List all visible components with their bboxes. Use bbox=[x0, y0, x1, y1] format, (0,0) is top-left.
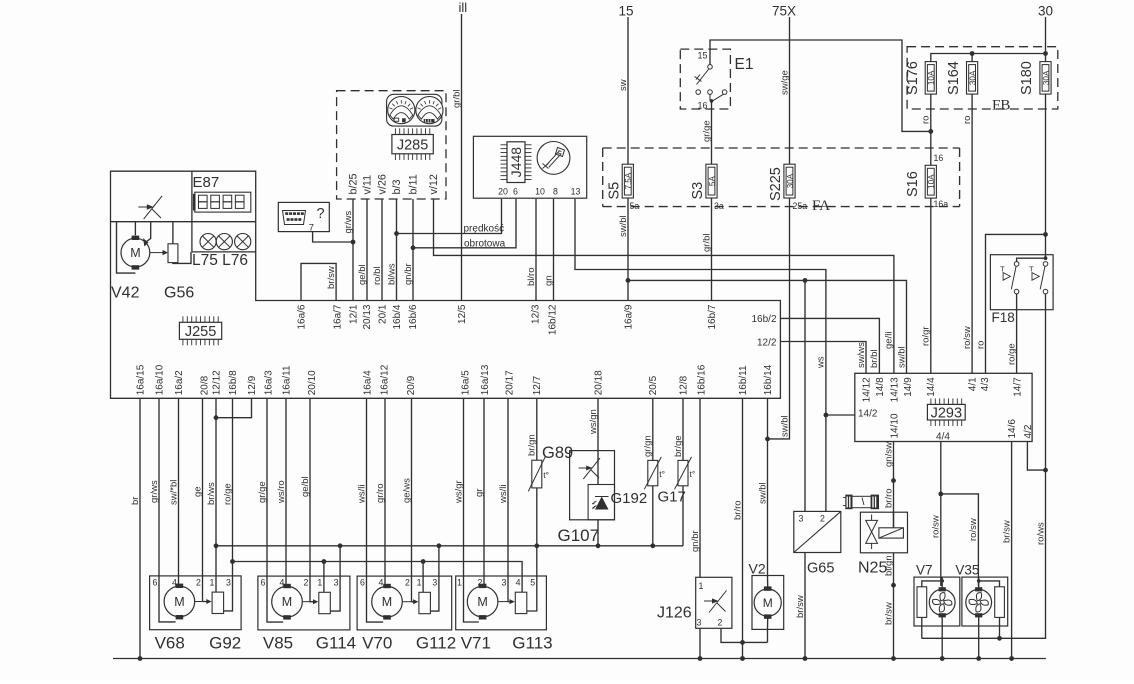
svg-text:20/18: 20/18 bbox=[593, 370, 604, 395]
svg-text:15: 15 bbox=[698, 51, 708, 61]
svg-text:75X: 75X bbox=[772, 4, 796, 19]
positioning motor V68 / potentiometer G92 box bbox=[150, 576, 242, 630]
svg-text:14/8: 14/8 bbox=[875, 377, 886, 397]
E87 connector pin labels inner edge bbox=[296, 304, 718, 335]
fuse S5 7.5A bbox=[622, 164, 633, 198]
blower motor V42 bbox=[121, 238, 150, 267]
wire gr/gn pin 20/5 to G192 bbox=[652, 398, 654, 460]
svg-text:b/11: b/11 bbox=[407, 174, 419, 194]
svg-text:16b/16: 16b/16 bbox=[696, 364, 707, 395]
J126 transistor symbol bbox=[704, 600, 713, 602]
wire ro/sw S164 to J293 4/1 bbox=[971, 94, 973, 373]
V68 wiper arrow bbox=[195, 601, 207, 603]
fuse holder FA dashed box bbox=[603, 148, 960, 207]
svg-text:sw/ws: sw/ws bbox=[856, 342, 867, 368]
diagnostic connector box bbox=[278, 202, 329, 231]
radiator fan V35 box bbox=[962, 577, 1008, 626]
svg-text:16b/14: 16b/14 bbox=[763, 364, 774, 395]
svg-text:?: ? bbox=[317, 206, 325, 222]
svg-text:V68: V68 bbox=[155, 633, 185, 652]
svg-text:30A: 30A bbox=[1042, 70, 1051, 85]
svg-text:obrotowa: obrotowa bbox=[464, 238, 506, 249]
svg-text:S16: S16 bbox=[905, 171, 921, 197]
svg-text:T: T bbox=[1029, 265, 1034, 274]
wire gr/ws J285 b/25 to pin 12/1 bbox=[352, 199, 354, 301]
terminal 15 bbox=[619, 4, 634, 19]
svg-text:t°: t° bbox=[690, 469, 696, 479]
V35 motor ground wire bbox=[978, 615, 980, 658]
svg-text:br/sw: br/sw bbox=[795, 595, 806, 618]
ground bus wire bbox=[113, 658, 1046, 660]
svg-text:G114: G114 bbox=[316, 634, 356, 653]
svg-text:5A: 5A bbox=[708, 176, 717, 187]
svg-text:M: M bbox=[763, 596, 773, 610]
AC clutch relay N25 box bbox=[860, 512, 907, 553]
svg-text:16b/6: 16b/6 bbox=[408, 304, 419, 329]
svg-text:12/8: 12/8 bbox=[678, 375, 689, 395]
wire diag pin 7 to gr/ws bbox=[313, 232, 353, 242]
svg-text:2: 2 bbox=[478, 578, 483, 588]
wire ge/li J285 v/12 to J293 pin 14/13 bbox=[434, 199, 894, 373]
wire bl/ro J448 pin 10 to pin 12/3 bbox=[535, 199, 537, 301]
svg-text:3: 3 bbox=[334, 578, 339, 588]
wire terminal 30 S180 down to F18 bbox=[1045, 94, 1047, 258]
svg-text:V71: V71 bbox=[461, 634, 491, 653]
svg-text:J448: J448 bbox=[508, 147, 524, 178]
node branch to G65 pin 3 bbox=[803, 278, 808, 283]
wire ro/ge pin 16b/8 to V68 pin 3 and bus B bbox=[232, 398, 234, 576]
fuse S180 30A bbox=[1040, 62, 1051, 95]
svg-text:sw/bl: sw/bl bbox=[618, 215, 629, 237]
E87 bottom edge pin labels bbox=[135, 364, 774, 395]
temperature sensor G17 bbox=[678, 460, 688, 485]
terminal 75X bbox=[772, 4, 796, 19]
wire ge/bl pin 20/10 to V85 pin 2 bbox=[309, 398, 311, 576]
E87 electronics symbol bbox=[138, 206, 147, 208]
fuse holder FB dashed box bbox=[907, 47, 1058, 109]
svg-text:14/6: 14/6 bbox=[1007, 419, 1018, 439]
svg-text:12/1: 12/1 bbox=[348, 304, 359, 324]
svg-text:12/7: 12/7 bbox=[532, 375, 543, 395]
wire ro/gr S16 to J293 14/4 bbox=[930, 198, 932, 373]
svg-text:12/9: 12/9 bbox=[247, 375, 258, 395]
wire ge/bl J285 v/11 to pin 20/13 bbox=[366, 199, 368, 301]
wire junction to ground bus bbox=[742, 642, 744, 658]
V70 stub pin3 from bus A bbox=[437, 543, 442, 548]
V7 internal feed link bbox=[940, 579, 944, 583]
V35 resistor lower wire bbox=[999, 617, 1001, 638]
F18 internal link to terminal 30 wire bbox=[1017, 258, 1046, 261]
motor V71 bbox=[467, 586, 498, 617]
wire gn J448 pin 8 to pin 16b/12 bbox=[553, 199, 555, 301]
svg-text:10A: 10A bbox=[927, 174, 936, 189]
svg-text:16a/10: 16a/10 bbox=[154, 364, 165, 395]
node G192 bus A bbox=[650, 543, 655, 548]
positioning motor V71 / potentiometer G113 box bbox=[456, 576, 547, 630]
svg-text:4: 4 bbox=[172, 577, 177, 587]
wire to G65 pin 3 bbox=[804, 280, 806, 511]
wire ro/ws F18 right switch down to fan resistors bbox=[922, 294, 1046, 638]
svg-text:gn: gn bbox=[543, 275, 554, 286]
svg-text:G113: G113 bbox=[512, 634, 552, 653]
wire gr/ge pin 16a/3 to V85 pin 6 bbox=[266, 398, 268, 576]
svg-text:20/13: 20/13 bbox=[362, 304, 373, 329]
svg-text:4/3: 4/3 bbox=[980, 377, 991, 391]
V7 resistor bbox=[917, 587, 927, 618]
svg-text:16b/7: 16b/7 bbox=[707, 304, 718, 329]
svg-text:2: 2 bbox=[304, 578, 309, 588]
svg-text:ro/sw: ro/sw bbox=[962, 326, 973, 349]
svg-text:bl/ro: bl/ro bbox=[526, 268, 537, 286]
svg-text:14/7: 14/7 bbox=[1013, 377, 1024, 397]
svg-text:S164: S164 bbox=[946, 61, 962, 95]
svg-text:G89: G89 bbox=[542, 444, 573, 462]
svg-text:J255: J255 bbox=[185, 324, 216, 340]
svg-text:gr/ge: gr/ge bbox=[701, 120, 712, 142]
fuse S176 10A bbox=[925, 62, 936, 95]
wire ro S176 to S16 bbox=[930, 94, 932, 165]
svg-text:E87: E87 bbox=[193, 174, 220, 191]
svg-text:br/sw: br/sw bbox=[883, 602, 894, 625]
V2 motor bbox=[754, 589, 781, 616]
svg-text:gr/bl: gr/bl bbox=[701, 234, 712, 252]
svg-text:12/2: 12/2 bbox=[757, 338, 777, 349]
photo sensor G107 box bbox=[570, 451, 615, 520]
svg-text:ge/ws: ge/ws bbox=[401, 478, 412, 503]
E87 right edge pins 16b/2 12/2 bbox=[752, 314, 777, 349]
wire ro/sw J293 4/4 to fans V7 V35 bbox=[940, 442, 942, 587]
wire terminal 30 to fuse S180 bbox=[1045, 17, 1047, 62]
wire ro/ge F18 left switch to J293 14/7 bbox=[1016, 294, 1018, 373]
svg-text:ws: ws bbox=[816, 356, 827, 369]
svg-text:V70: V70 bbox=[362, 634, 392, 653]
svg-text:16a/13: 16a/13 bbox=[480, 364, 491, 395]
wire ws/ro pin 16a/11 to V85 pin 4 bbox=[285, 398, 287, 576]
V7 resistor lower wire bbox=[921, 617, 923, 638]
svg-text:S176: S176 bbox=[905, 61, 921, 95]
wire ws/li pin 20/17 to V71 pin 3 bbox=[507, 398, 509, 576]
svg-text:4/4: 4/4 bbox=[936, 432, 950, 443]
svg-text:25a: 25a bbox=[793, 201, 808, 211]
svg-text:br: br bbox=[130, 497, 141, 505]
svg-text:16a/3: 16a/3 bbox=[263, 370, 274, 395]
svg-text:V7: V7 bbox=[916, 563, 933, 578]
svg-text:14/2: 14/2 bbox=[858, 409, 878, 420]
svg-text:ro/ws: ro/ws bbox=[1035, 522, 1046, 545]
svg-text:16a: 16a bbox=[934, 199, 949, 209]
svg-text:13: 13 bbox=[571, 187, 581, 197]
wire predkosc J448 pin 20 bbox=[397, 199, 502, 234]
svg-text:J293: J293 bbox=[931, 405, 962, 421]
panel electronics J255 bbox=[179, 316, 221, 345]
svg-text:20/10: 20/10 bbox=[307, 370, 318, 395]
svg-text:J285: J285 bbox=[397, 137, 428, 153]
svg-text:ws/li: ws/li bbox=[498, 485, 509, 504]
svg-text:gn/sw: gn/sw bbox=[883, 442, 894, 467]
svg-text:7: 7 bbox=[309, 223, 314, 234]
wiper bus A horizontal bbox=[216, 545, 683, 547]
temperature sensor G192 bbox=[648, 460, 658, 485]
svg-text:16b/8: 16b/8 bbox=[228, 370, 239, 395]
svg-text:20/9: 20/9 bbox=[406, 375, 417, 395]
svg-text:v/12: v/12 bbox=[428, 174, 440, 194]
positioning motor V85 / potentiometer G114 box bbox=[258, 576, 350, 630]
svg-text:3: 3 bbox=[799, 514, 804, 524]
svg-text:FA: FA bbox=[812, 198, 830, 214]
wire br/sw J293 14/6 to ground bbox=[1011, 442, 1013, 659]
svg-text:sw/bl: sw/bl bbox=[896, 346, 907, 368]
svg-text:sw/*bl: sw/*bl bbox=[168, 480, 179, 505]
supply bus B horizontal bbox=[233, 562, 523, 577]
wire sw/bl S5 to J293 14/9 bbox=[628, 280, 907, 373]
svg-text:1: 1 bbox=[699, 581, 704, 591]
svg-text:16a/9: 16a/9 bbox=[623, 304, 634, 329]
node branch ro to J293 4/3 bbox=[1043, 232, 1048, 237]
wire gr/bl S3 to pin 16b/7 bbox=[711, 198, 713, 301]
node J293 4/2 joins bbox=[1043, 468, 1048, 473]
wire obrotowa J448 pin 6 bbox=[413, 199, 516, 248]
svg-text:1: 1 bbox=[417, 578, 422, 588]
svg-text:4/1: 4/1 bbox=[968, 377, 979, 391]
G56 lower link bbox=[173, 252, 191, 264]
svg-text:16a/11: 16a/11 bbox=[281, 365, 292, 395]
svg-text:14/12: 14/12 bbox=[861, 377, 872, 402]
svg-text:16a/5: 16a/5 bbox=[460, 370, 471, 395]
jumper 16a/6 to 16a/7 br/sw bbox=[301, 263, 336, 300]
blower resistor G56 bbox=[168, 244, 178, 263]
svg-text:30A: 30A bbox=[969, 70, 978, 85]
svg-text:ws/gr: ws/gr bbox=[453, 480, 464, 504]
svg-text:3: 3 bbox=[697, 618, 702, 628]
svg-text:V85: V85 bbox=[263, 634, 293, 653]
wire J126 pin 2 to V2 minus bbox=[721, 628, 768, 642]
svg-text:2: 2 bbox=[196, 577, 201, 587]
svg-text:20: 20 bbox=[498, 187, 508, 197]
svg-text:gr/ro: gr/ro bbox=[375, 483, 386, 503]
svg-text:gr/ws: gr/ws bbox=[343, 211, 354, 234]
svg-text:ws/li: ws/li bbox=[356, 485, 367, 504]
svg-text:6: 6 bbox=[360, 578, 365, 588]
svg-text:M: M bbox=[382, 595, 392, 609]
svg-text:ge/bl: ge/bl bbox=[357, 264, 368, 285]
high pressure sensor G65 box bbox=[794, 511, 841, 552]
svg-text:4/2: 4/2 bbox=[1023, 424, 1034, 438]
svg-text:G17: G17 bbox=[658, 489, 686, 506]
potentiometer G113 bbox=[515, 592, 527, 613]
potentiometer G112 bbox=[419, 592, 431, 613]
wire gr/ro pin 16a/12 to V70 pin 4 bbox=[384, 398, 386, 576]
N25 ground wire bl/gn br/sw bbox=[893, 553, 895, 659]
fuse S16 10A bbox=[925, 165, 936, 198]
svg-text:V2: V2 bbox=[749, 561, 766, 577]
wire ge pin 20/8 to V68 pin 2 bbox=[202, 398, 204, 576]
svg-text:v/11: v/11 bbox=[361, 175, 373, 195]
node junction obrotowa bbox=[411, 245, 416, 250]
svg-text:4: 4 bbox=[516, 578, 521, 588]
svg-text:M: M bbox=[174, 595, 184, 609]
thermal switch F18 box bbox=[990, 255, 1053, 310]
svg-text:16a/7: 16a/7 bbox=[332, 304, 343, 329]
svg-text:8: 8 bbox=[553, 187, 558, 197]
svg-text:30: 30 bbox=[1038, 4, 1053, 19]
G107 internal link bbox=[597, 451, 599, 485]
svg-text:14/4: 14/4 bbox=[926, 377, 937, 397]
svg-text:M: M bbox=[282, 595, 292, 609]
wire ws/li pin 16a/4 to V70 pin 6 bbox=[366, 398, 368, 576]
svg-text:ill: ill bbox=[459, 0, 468, 15]
fresh air blower V2 box bbox=[752, 576, 784, 630]
svg-text:br/ws: br/ws bbox=[206, 482, 217, 505]
fan control unit J293 box bbox=[855, 373, 1032, 441]
wire ws/gn pin 20/18 to G107 bbox=[597, 398, 599, 450]
node junction predkosc bbox=[394, 231, 399, 236]
temperature sensor G89 bbox=[532, 460, 542, 488]
svg-text:16a/15: 16a/15 bbox=[135, 364, 146, 395]
node splice bbox=[891, 583, 896, 588]
svg-text:30A: 30A bbox=[786, 173, 795, 188]
G17 lower wire joins bus A bbox=[682, 486, 684, 546]
svg-text:1: 1 bbox=[210, 577, 215, 587]
svg-text:ro/gr: ro/gr bbox=[921, 326, 932, 346]
svg-text:1: 1 bbox=[317, 578, 322, 588]
motor V70 bbox=[372, 586, 403, 617]
svg-text:10: 10 bbox=[535, 187, 545, 197]
positioning motor V70 / potentiometer G112 box bbox=[357, 576, 452, 630]
control unit J126 box bbox=[696, 577, 732, 628]
svg-text:ro: ro bbox=[962, 116, 973, 124]
G56 wiper arrow from motor bbox=[150, 252, 164, 254]
wire J293 4/2 joins ro/ws line bbox=[1027, 442, 1045, 471]
V7 motor ground wire bbox=[941, 615, 943, 658]
G107 diode box bbox=[588, 485, 614, 520]
V35 internal feed link bbox=[977, 579, 981, 583]
svg-text:10A: 10A bbox=[927, 70, 936, 85]
node junction diag connector / b/25 bbox=[351, 240, 356, 245]
fuse S164 30A bbox=[967, 62, 978, 95]
wire br/bl pin 16b/2 to J293 14/8 bbox=[780, 318, 879, 373]
svg-text:3a: 3a bbox=[714, 201, 724, 211]
node E1 feed joins S176/S16 bbox=[928, 129, 933, 134]
svg-text:S5: S5 bbox=[607, 182, 623, 200]
wire br pin 16a/15 to ground bus bbox=[139, 398, 141, 658]
svg-text:ws/gn: ws/gn bbox=[588, 409, 599, 435]
ground nodes bbox=[138, 656, 143, 661]
wire sw/bl S225 joins 16b/14 to V2 bbox=[768, 198, 790, 439]
svg-text:2: 2 bbox=[405, 578, 410, 588]
G89 lower wire to bus A and V71 pin 5 bbox=[536, 488, 538, 576]
wire br/gn pin 12/7 to G89 and V71 pin 5 bbox=[536, 398, 538, 460]
node bus B start bbox=[230, 559, 235, 564]
svg-text:7.5A: 7.5A bbox=[624, 172, 633, 189]
svg-text:t°: t° bbox=[543, 470, 549, 480]
svg-text:V35: V35 bbox=[955, 563, 979, 578]
svg-text:12/3: 12/3 bbox=[530, 304, 541, 324]
svg-text:V42: V42 bbox=[111, 285, 140, 302]
wire E1 pin 15 to S176 via top bbox=[710, 40, 931, 131]
svg-text:20/17: 20/17 bbox=[504, 370, 515, 395]
instrument cluster dashed box bbox=[337, 91, 446, 199]
svg-text:G56: G56 bbox=[164, 285, 194, 302]
V42 wiring bbox=[117, 222, 136, 273]
V85 stub pin1 from bus B bbox=[322, 559, 327, 564]
G107 lower wire to bus A bbox=[597, 520, 599, 546]
svg-text:G107: G107 bbox=[558, 526, 600, 545]
wire gr pin 16a/13 to V71 pin 2 bbox=[483, 398, 485, 576]
svg-text:3: 3 bbox=[226, 577, 231, 587]
svg-text:gn/br: gn/br bbox=[403, 263, 414, 285]
svg-text:b/3: b/3 bbox=[391, 179, 403, 194]
J448 chip bbox=[501, 142, 532, 183]
svg-text:ro: ro bbox=[921, 116, 932, 124]
svg-text:16a/6: 16a/6 bbox=[296, 304, 307, 329]
svg-text:t°: t° bbox=[659, 469, 665, 479]
svg-text:16: 16 bbox=[698, 101, 708, 111]
F18 switch at x=1016.6 bbox=[1014, 262, 1019, 267]
fuse S3 5A bbox=[706, 164, 717, 198]
svg-text:ge: ge bbox=[192, 486, 203, 497]
V85 stub pin3 from bus A bbox=[338, 543, 343, 548]
N25 coil bbox=[879, 528, 904, 538]
svg-text:G65: G65 bbox=[807, 561, 834, 577]
inline connector bbox=[843, 495, 879, 510]
wire J126 pin 3 to ground bbox=[699, 628, 701, 658]
G65 ground wire br/sw bbox=[804, 553, 806, 659]
svg-text:14/13: 14/13 bbox=[889, 377, 900, 402]
wire gn/br pin 16b/16 to J126 pin 1 bbox=[699, 398, 701, 577]
E1 contacts bbox=[708, 65, 713, 70]
svg-text:2: 2 bbox=[820, 514, 825, 524]
svg-text:ro/bl: ro/bl bbox=[372, 267, 383, 285]
J448 key symbol bbox=[537, 142, 570, 175]
V35 resistor bbox=[995, 587, 1005, 618]
instrument cluster electronics J285 bbox=[392, 128, 433, 160]
svg-text:br/sw: br/sw bbox=[326, 266, 337, 289]
switch E1 dashed box bbox=[680, 49, 730, 109]
svg-text:b/25: b/25 bbox=[347, 173, 359, 194]
svg-text:G192: G192 bbox=[611, 490, 648, 507]
svg-text:S180: S180 bbox=[1019, 61, 1035, 95]
svg-text:3: 3 bbox=[502, 578, 507, 588]
svg-text:br/ge: br/ge bbox=[673, 435, 684, 457]
svg-text:5a: 5a bbox=[630, 201, 640, 211]
node fan feed split bbox=[938, 492, 943, 497]
E1 lever bbox=[697, 69, 709, 85]
svg-text:6: 6 bbox=[261, 578, 266, 588]
svg-text:ge/li: ge/li bbox=[884, 332, 895, 349]
V71 wiper arrow bbox=[498, 601, 510, 603]
control unit E87 outer box bbox=[111, 171, 781, 398]
svg-text:16b/4: 16b/4 bbox=[392, 304, 403, 329]
wire br/ro pin 16b/11 to V2 circuit bbox=[742, 398, 744, 642]
svg-text:G112: G112 bbox=[416, 634, 456, 653]
svg-text:12/12: 12/12 bbox=[211, 370, 222, 395]
svg-text:prędkość: prędkość bbox=[464, 223, 505, 234]
fuse S225 30A bbox=[784, 164, 795, 198]
svg-text:16b/2: 16b/2 bbox=[752, 314, 777, 325]
svg-text:sw/ge: sw/ge bbox=[779, 70, 790, 95]
J285 pin labels bbox=[347, 173, 440, 194]
wire ro/bl J285 v/26 to pin 20/1 bbox=[381, 199, 383, 301]
N25 internal wire bbox=[893, 512, 895, 528]
svg-text:br/ro: br/ro bbox=[732, 500, 743, 520]
svg-text:ge/bl: ge/bl bbox=[300, 476, 311, 497]
svg-text:S225: S225 bbox=[768, 167, 784, 201]
wire gr/ge E1 pin 16 to fuse S3 bbox=[711, 101, 713, 164]
wire br/ws pin 12/12 to V68 pin 1 and wiper bus bbox=[215, 398, 217, 576]
wire ill gr/bl to pin 12/5 bbox=[461, 14, 463, 301]
svg-text:br/ro: br/ro bbox=[883, 488, 894, 508]
wire bl/ws J285 b/3 to pin 16b/4 bbox=[396, 199, 398, 301]
